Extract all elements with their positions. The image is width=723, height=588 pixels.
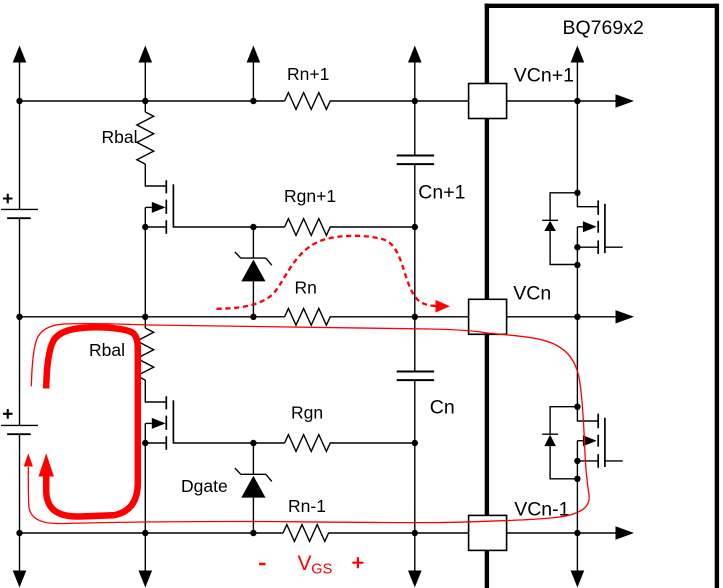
- resistor Rbal upper: [137, 112, 154, 164]
- svg-text:BQ769x2: BQ769x2: [563, 17, 644, 39]
- wire row VCn+1 from left rail to pin box: [20, 100, 285, 102]
- arrow right row VCn-1: [616, 526, 635, 539]
- transistor Q2 balancing NMOS lower: [145, 380, 253, 450]
- wire rail 2 from lower MOSFET body to row VCn-1: [144, 423, 146, 572]
- svg-text:Rgn: Rgn: [291, 403, 323, 423]
- svg-text:Rn+1: Rn+1: [287, 64, 329, 84]
- wire rail 5 from row VCn to internal FET 2: [576, 317, 578, 407]
- arrow up rail 3: [247, 46, 261, 63]
- resistor Rn+1: [285, 93, 469, 110]
- wire rail 2 top stub above row VCn+1: [144, 59, 146, 101]
- wire row VCn inside IC: [507, 316, 617, 318]
- internal FET with body diode upper: [542, 193, 623, 265]
- wire rail 2 from row VCn+1 to Rbal: [144, 101, 146, 112]
- IC BQ769x2 boundary left edge: [485, 4, 489, 588]
- svg-text:Rn-1: Rn-1: [288, 496, 326, 516]
- wire row VCn-1 inside IC: [507, 532, 617, 534]
- IC BQ769x2 boundary right edge: [715, 4, 719, 588]
- red thin loop arrowhead: [24, 453, 33, 466]
- wire row VCn+1 inside IC: [507, 100, 617, 102]
- wire rail 5 top stub above row VCn+1: [576, 59, 578, 101]
- battery cell n: [1, 425, 38, 434]
- capacitor Cn: [397, 372, 434, 381]
- resistor Rn: [285, 308, 469, 325]
- wire rail 2 from row VCn to Rbal lower: [144, 317, 146, 328]
- wire left rail top segment with battery n+1: [19, 59, 21, 317]
- junction dots row VCn-1: [16, 530, 22, 536]
- wire gate row upper from zener to resistor Rgn+1: [253, 226, 284, 228]
- wire rail 3 zener Dgate branch: [252, 443, 254, 533]
- arrow down rail 4: [408, 571, 422, 588]
- svg-text:VCn+1: VCn+1: [514, 65, 574, 87]
- junction dots gate row upper: [142, 224, 148, 230]
- wire left rail bottom segment with battery n: [19, 317, 21, 572]
- svg-text:Rbal: Rbal: [102, 127, 138, 147]
- arrow up rail 1: [13, 46, 27, 63]
- pin box VCn: [469, 299, 507, 334]
- red thick loop arrowhead: [39, 453, 54, 476]
- IC BQ769x2 boundary top edge: [485, 4, 717, 8]
- wire rail 5 from internal FET 1 to row VCn: [576, 265, 578, 317]
- battery cell n+1 plus sign: [3, 194, 13, 204]
- red thin balancing loop: [28, 324, 589, 524]
- arrow down rail 1: [13, 571, 27, 588]
- wire rail 4 top stub above row VCn+1: [414, 59, 416, 101]
- wire rail 4 through capacitor Cn+1: [414, 101, 416, 317]
- junction dots internal FET lower: [574, 404, 580, 410]
- svg-text:V: V: [298, 552, 312, 575]
- zener diode Dgate lower: [235, 468, 272, 498]
- arrow up rail 2: [139, 46, 153, 63]
- arrow down rail 5: [571, 571, 585, 588]
- resistor Rn-1: [283, 525, 469, 542]
- wire rail 3 zener D1 branch: [252, 227, 254, 317]
- zener diode D1 upper: [235, 252, 272, 282]
- internal FET with body diode lower: [542, 407, 623, 479]
- svg-text:Rgn+1: Rgn+1: [284, 186, 336, 206]
- svg-text:Rn: Rn: [295, 278, 317, 298]
- junction dots internal FET upper: [574, 190, 580, 196]
- arrow right row VCn+1: [616, 94, 635, 107]
- capacitor Cn+1: [397, 156, 434, 165]
- transistor Q1 balancing NMOS upper: [145, 164, 253, 234]
- arrow up rail 4: [408, 46, 422, 63]
- junction dots row VCn+1: [16, 98, 22, 104]
- junction dots gate row lower: [142, 440, 148, 446]
- battery cell n plus sign: [3, 409, 13, 419]
- pin box VCn+1: [469, 84, 507, 119]
- arrow down rail 2: [139, 571, 153, 588]
- battery cell n+1: [1, 209, 38, 218]
- arrow up rail 5: [571, 46, 585, 63]
- svg-text:VCn: VCn: [513, 283, 551, 305]
- red dashed gate current path with arrow: [217, 236, 437, 309]
- wire gate row lower from zener to resistor Rgn: [253, 442, 284, 444]
- label VGS with polarity: [259, 552, 364, 577]
- wire rail 5 from internal FET 2 to row VCn-1: [576, 479, 578, 572]
- wire rail 3 top stub above row VCn+1: [252, 59, 254, 101]
- svg-text:Cn: Cn: [430, 397, 455, 419]
- junction dots row VCn: [16, 314, 22, 320]
- wire rail 2 from MOSFET body to row VCn: [144, 207, 146, 316]
- svg-text:Cn+1: Cn+1: [418, 182, 465, 204]
- red thick balancing current loop: [46, 327, 138, 516]
- wire rail 4 through capacitor Cn: [414, 317, 416, 572]
- resistor Rbal lower: [137, 328, 154, 380]
- wire row VCn from left rail to pin box: [20, 316, 285, 318]
- arrow right row VCn: [616, 310, 635, 323]
- red dashed path arrowhead: [436, 300, 451, 313]
- svg-text:GS: GS: [311, 562, 332, 578]
- resistor Rgn+1: [285, 219, 415, 236]
- svg-text:Dgate: Dgate: [181, 476, 228, 496]
- pin box VCn-1: [469, 515, 507, 550]
- svg-text:Rbal: Rbal: [89, 340, 125, 360]
- resistor Rgn: [285, 435, 415, 452]
- wire rail 5 from row VCn+1 to internal FET 1: [576, 101, 578, 193]
- wire row VCn-1 from left rail to pin box: [20, 532, 284, 534]
